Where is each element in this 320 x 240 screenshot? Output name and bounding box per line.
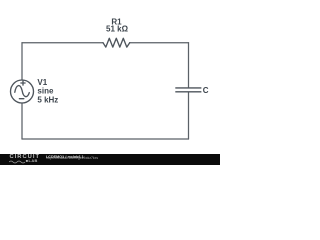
wire top-left segment	[22, 42, 103, 44]
resistor R1	[103, 38, 130, 47]
footer bar	[0, 154, 220, 165]
wire left upper	[21, 43, 23, 80]
svg-text:5 kHz: 5 kHz	[37, 95, 58, 104]
svg-text:51 kΩ: 51 kΩ	[106, 25, 129, 34]
wire top-right segment	[130, 42, 189, 44]
wire right lower	[188, 92, 190, 139]
voltage source V1	[11, 80, 34, 103]
capacitor C	[175, 88, 201, 92]
logo sine squiggle + LAB	[9, 160, 26, 164]
label R1	[37, 17, 208, 104]
wire left lower	[21, 103, 23, 139]
svg-text:C: C	[203, 86, 209, 95]
CircuitLab logo wordmark	[10, 155, 41, 160]
caption line 1	[46, 155, 84, 159]
caption line 2	[46, 157, 98, 161]
wire bottom	[22, 138, 189, 140]
wire right upper	[188, 43, 190, 88]
